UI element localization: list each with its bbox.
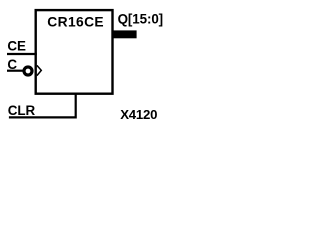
svg-text:CLR: CLR	[8, 103, 36, 118]
svg-text:CE: CE	[7, 39, 26, 54]
clock wedge	[37, 65, 41, 75]
svg-text:CR16CE: CR16CE	[47, 15, 104, 30]
svg-text:X4120: X4120	[120, 107, 157, 122]
svg-text:Q[15:0]: Q[15:0]	[118, 12, 163, 27]
inversion bubble on C pin	[24, 67, 32, 75]
symbol body U1	[36, 10, 113, 94]
bus Q[15:0]	[113, 30, 136, 38]
wire CE	[7, 53, 37, 55]
svg-text:C: C	[7, 57, 17, 72]
wire C	[7, 70, 23, 72]
wire CLR	[9, 93, 76, 118]
